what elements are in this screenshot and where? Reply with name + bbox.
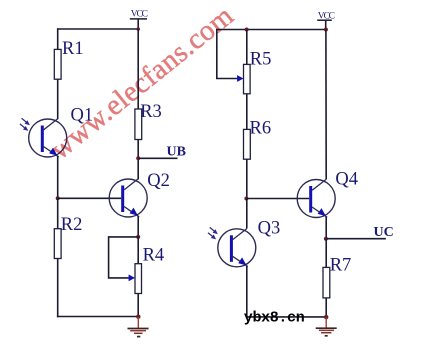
- wire R3 to UB node: [137, 140, 139, 180]
- svg-text:UC: UC: [374, 225, 394, 240]
- photo arrow 1 of Q3: [210, 227, 218, 234]
- wire R2 down: [57, 259, 59, 318]
- resistor R5 (rheostat): [244, 49, 272, 94]
- wire R4 to ground: [137, 294, 139, 318]
- node R4 top: [136, 235, 140, 239]
- resistor R7: [323, 256, 351, 298]
- wire R1 to Q1 collector: [57, 79, 59, 119]
- wire R5 to R6: [246, 94, 248, 130]
- wire VCC2 down to Q4 collector: [325, 30, 327, 180]
- resistor R2: [54, 215, 82, 258]
- wire R5 column: [246, 30, 248, 65]
- wire R3 column from VCC: [137, 29, 139, 109]
- wiper arrow of R5: [237, 75, 243, 82]
- wire node to R4: [137, 237, 139, 264]
- wire Q1 emitter down: [57, 156, 59, 198]
- wire UC output: [326, 238, 386, 240]
- wire top left rail: [58, 28, 139, 30]
- transistor Q4: [297, 170, 358, 218]
- node ground left: [136, 315, 140, 319]
- svg-text:ybx8.cn: ybx8.cn: [244, 309, 305, 326]
- wire Q4 emitter down: [325, 217, 327, 239]
- svg-text:Q2: Q2: [147, 171, 170, 191]
- svg-text:Q4: Q4: [335, 170, 358, 190]
- wire to R2: [57, 198, 59, 228]
- resistor R3: [135, 102, 162, 139]
- VCC symbol 1: [130, 9, 148, 29]
- ground left: [128, 317, 149, 337]
- node Q1 emitter / Q2 base junction: [56, 196, 60, 200]
- wire UC node to R7: [325, 239, 327, 268]
- wire top right rail: [217, 29, 326, 31]
- wire R7 to ground: [325, 298, 327, 318]
- node Q4 base junction: [244, 197, 248, 201]
- node VCC1: [136, 27, 140, 31]
- svg-text:R5: R5: [250, 49, 272, 69]
- svg-text:R4: R4: [143, 245, 165, 265]
- svg-text:Q1: Q1: [71, 106, 94, 126]
- wire node down to Q3 collector: [246, 199, 248, 229]
- wiper arrow of R4: [129, 275, 135, 282]
- wire base of Q4: [246, 198, 309, 200]
- wire bottom right rail: [247, 316, 326, 318]
- wire R4 wiper feedback: [109, 237, 139, 278]
- transistor Q2: [109, 171, 170, 217]
- photo arrow 2 of Q3: [208, 233, 216, 240]
- transistor Q3 (photo): [218, 219, 280, 267]
- svg-text:R6: R6: [250, 119, 272, 139]
- node top of R5 column: [245, 28, 249, 32]
- photo arrow 2 of Q1: [20, 124, 28, 131]
- svg-text:R1: R1: [62, 39, 84, 59]
- svg-text:UB: UB: [167, 145, 186, 160]
- wire R5 wiper feedback: [217, 29, 239, 79]
- node UC: [324, 237, 328, 241]
- svg-text:VCC: VCC: [131, 9, 148, 19]
- wire left column to R1: [57, 28, 59, 49]
- svg-text:R2: R2: [61, 215, 83, 235]
- resistor R6: [244, 119, 272, 160]
- transistor Q1 (photo): [29, 106, 93, 158]
- node ground right: [324, 315, 328, 319]
- resistor R4 (rheostat): [135, 245, 164, 293]
- ground right: [316, 317, 337, 335]
- wire UB output: [138, 157, 177, 159]
- resistor R1: [54, 39, 83, 79]
- wire R6 down to node: [246, 159, 248, 198]
- svg-text:Q3: Q3: [258, 219, 281, 239]
- wire bottom left rail: [57, 316, 138, 318]
- node VCC2: [324, 28, 328, 32]
- wire Q3 emitter down: [246, 266, 248, 318]
- wire Q2 emitter down: [137, 216, 139, 237]
- svg-text:R3: R3: [140, 102, 162, 122]
- svg-text:R7: R7: [330, 256, 352, 276]
- photo arrow 1 of Q1: [22, 118, 30, 125]
- wire base of Q2: [58, 197, 121, 199]
- node UB: [136, 156, 140, 160]
- VCC symbol 2: [317, 11, 334, 29]
